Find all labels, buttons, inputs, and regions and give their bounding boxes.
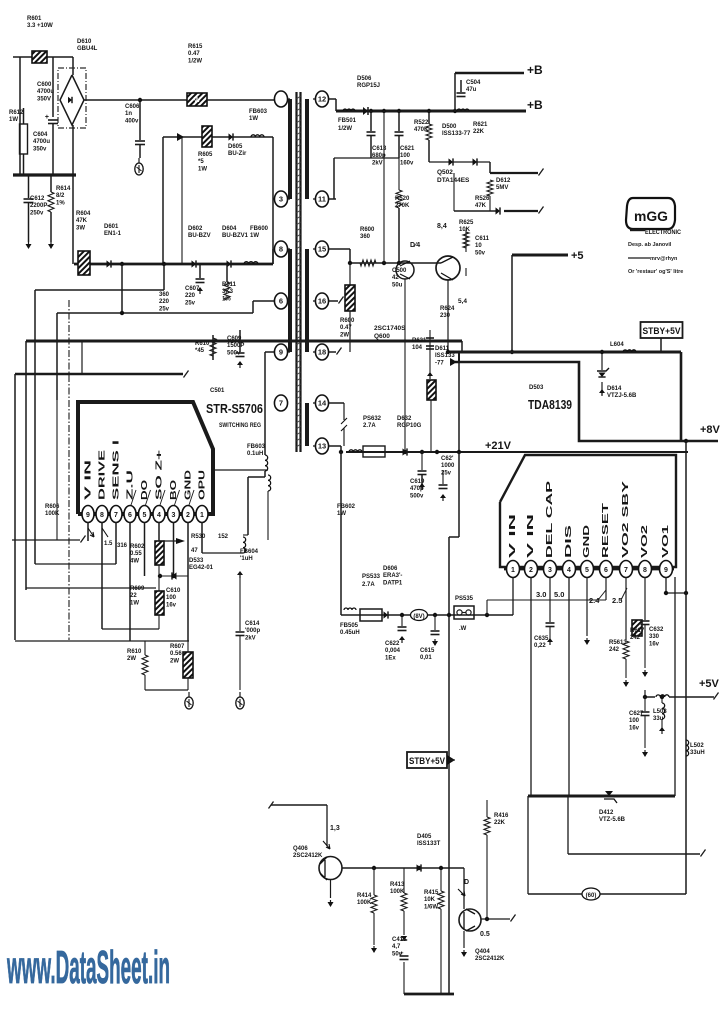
svg-text:16v: 16v — [629, 725, 640, 731]
svg-text:Or 'restaur' og'S' litre: Or 'restaur' og'S' litre — [628, 269, 683, 275]
svg-text:0.45uH: 0.45uH — [340, 630, 360, 636]
svg-text:R615: R615 — [188, 44, 203, 50]
svg-text:mGG: mGG — [634, 208, 668, 224]
svg-text:D412: D412 — [599, 810, 614, 816]
svg-text:11: 11 — [318, 195, 326, 204]
svg-text:2.5: 2.5 — [612, 596, 622, 605]
svg-text:0.5: 0.5 — [480, 931, 490, 938]
svg-text:L502: L502 — [690, 743, 704, 749]
svg-text:R607: R607 — [170, 644, 185, 650]
svg-text:18: 18 — [318, 348, 326, 357]
svg-text:2.7A: 2.7A — [362, 582, 375, 588]
svg-text:1%: 1% — [56, 200, 65, 206]
svg-text:L604: L604 — [610, 342, 624, 348]
svg-text:3: 3 — [548, 567, 552, 574]
svg-text:C632: C632 — [649, 627, 664, 633]
svg-text:+21V: +21V — [485, 440, 512, 452]
svg-text:C611: C611 — [475, 236, 490, 242]
svg-text:STR-S5706: STR-S5706 — [206, 401, 263, 416]
svg-text:SWITCHING REG: SWITCHING REG — [219, 422, 261, 429]
svg-text:D: D — [464, 879, 469, 886]
svg-text:C612: C612 — [30, 196, 45, 202]
svg-text:*45: *45 — [195, 348, 205, 354]
svg-text:R601: R601 — [27, 16, 42, 22]
svg-text:ISS133: ISS133 — [435, 353, 455, 359]
svg-text:*5: *5 — [198, 159, 204, 165]
svg-text:R526: R526 — [475, 196, 490, 202]
svg-text:8/2: 8/2 — [56, 193, 65, 199]
svg-text:360: 360 — [159, 292, 170, 298]
svg-text:VO2: VO2 — [640, 524, 649, 558]
svg-text:C504: C504 — [466, 80, 481, 86]
svg-text:0,22: 0,22 — [534, 643, 546, 649]
svg-text:6: 6 — [604, 567, 608, 574]
svg-text:1W: 1W — [249, 116, 258, 122]
svg-text:R415: R415 — [424, 890, 439, 896]
svg-text:GBU4L: GBU4L — [77, 46, 98, 52]
svg-text:1: 1 — [511, 567, 515, 574]
svg-text:2SC2412K: 2SC2412K — [475, 956, 505, 962]
svg-text:Q600: Q600 — [374, 333, 390, 340]
svg-text:4: 4 — [157, 512, 161, 519]
svg-text:C619: C619 — [410, 479, 425, 485]
svg-text:D500: D500 — [442, 124, 457, 130]
svg-text:220: 220 — [185, 293, 196, 299]
svg-text:EN1-1: EN1-1 — [104, 231, 122, 237]
svg-text:10K: 10K — [459, 227, 471, 233]
svg-text:4,7: 4,7 — [392, 944, 401, 950]
svg-text:7: 7 — [624, 567, 628, 574]
svg-text:FB603: FB603 — [247, 444, 266, 450]
svg-text:3.3 +10W: 3.3 +10W — [27, 23, 53, 29]
svg-text:316: 316 — [117, 543, 128, 549]
svg-text:22: 22 — [130, 593, 137, 599]
svg-text:25v: 25v — [185, 300, 196, 306]
svg-text:8: 8 — [100, 512, 104, 519]
svg-text:1W: 1W — [130, 600, 139, 606]
svg-text:6: 6 — [128, 512, 132, 519]
svg-text:FB603: FB603 — [249, 109, 268, 115]
svg-text:PS632: PS632 — [363, 416, 382, 422]
svg-text:22K: 22K — [494, 820, 506, 826]
svg-text:ISS133T: ISS133T — [417, 841, 441, 847]
svg-text:D610: D610 — [77, 39, 92, 45]
svg-text:4: 4 — [567, 567, 571, 574]
svg-text:R600: R600 — [340, 318, 355, 324]
svg-text:'000p: '000p — [245, 628, 260, 634]
svg-text:1W: 1W — [250, 233, 259, 239]
svg-text:R600: R600 — [360, 227, 375, 233]
svg-text:1/6W: 1/6W — [424, 904, 438, 910]
svg-text:VO1: VO1 — [661, 524, 670, 558]
svg-text:0.47: 0.47 — [188, 51, 200, 57]
svg-text:9: 9 — [86, 512, 90, 519]
svg-text:RGP10G: RGP10G — [397, 423, 422, 429]
svg-text:16v: 16v — [649, 641, 660, 647]
svg-text:104: 104 — [412, 345, 423, 351]
svg-text:ERA3'-: ERA3'- — [383, 573, 402, 579]
svg-text:C606: C606 — [125, 104, 140, 110]
svg-text:2SC2412K: 2SC2412K — [293, 853, 323, 859]
svg-text:D503: D503 — [529, 385, 544, 391]
svg-text:V IN: V IN — [508, 513, 517, 558]
svg-text:1: 1 — [200, 512, 204, 519]
svg-text:100: 100 — [400, 153, 411, 159]
svg-text:Q404: Q404 — [475, 949, 490, 955]
svg-text:50v: 50v — [475, 250, 486, 256]
svg-text:2SC1740S: 2SC1740S — [374, 325, 406, 332]
svg-text:160v: 160v — [400, 160, 414, 166]
svg-text:+5V: +5V — [699, 678, 720, 690]
svg-text:GND: GND — [184, 470, 193, 500]
svg-text:330: 330 — [649, 634, 660, 640]
svg-text:50u: 50u — [392, 282, 403, 288]
svg-text:8: 8 — [643, 567, 647, 574]
svg-text:4700u: 4700u — [33, 139, 50, 145]
svg-text:2200P: 2200P — [30, 203, 47, 209]
svg-text:-77: -77 — [435, 360, 444, 366]
svg-text:D506: D506 — [357, 76, 372, 82]
svg-text:D604: D604 — [222, 226, 237, 232]
svg-text:R414: R414 — [357, 893, 372, 899]
svg-text:RGP15J: RGP15J — [357, 83, 380, 89]
svg-text:350v: 350v — [33, 146, 47, 152]
svg-text:8: 8 — [279, 245, 283, 254]
svg-text:2.4: 2.4 — [589, 596, 600, 605]
svg-text:STBY+5V: STBY+5V — [643, 326, 682, 337]
svg-text:2kV: 2kV — [245, 635, 256, 641]
svg-text:4700u: 4700u — [37, 89, 54, 95]
svg-text:360: 360 — [360, 234, 371, 240]
svg-text:C62': C62' — [441, 456, 454, 462]
svg-text:1000: 1000 — [441, 463, 455, 469]
svg-text:STBY+5V: STBY+5V — [409, 756, 446, 767]
svg-text:TDA8139: TDA8139 — [528, 398, 572, 412]
svg-text:2kV: 2kV — [372, 160, 383, 166]
svg-text:1/2W: 1/2W — [338, 126, 352, 132]
svg-text:DIS: DIS — [564, 523, 573, 558]
svg-text:5MV: 5MV — [496, 185, 508, 191]
svg-text:2: 2 — [186, 512, 190, 519]
svg-text:2W: 2W — [340, 332, 349, 338]
svg-text:'1uH: '1uH — [240, 556, 253, 562]
svg-text:5.0: 5.0 — [554, 590, 564, 599]
svg-text:GND: GND — [582, 525, 591, 558]
svg-text:2: 2 — [529, 567, 533, 574]
svg-text:10: 10 — [475, 243, 482, 249]
svg-text:R624: R624 — [440, 306, 455, 312]
svg-text:R610: R610 — [127, 649, 142, 655]
svg-text:R522: R522 — [414, 120, 429, 126]
svg-text:33uH: 33uH — [690, 750, 705, 756]
svg-text:D602: D602 — [188, 226, 203, 232]
svg-text:100K: 100K — [45, 511, 60, 517]
svg-text:1.5: 1.5 — [104, 541, 113, 547]
svg-text:47u: 47u — [466, 87, 477, 93]
svg-text:D612: D612 — [496, 178, 511, 184]
svg-text:EG42-01: EG42-01 — [189, 565, 214, 571]
svg-text:152: 152 — [218, 534, 229, 540]
svg-text:47K: 47K — [475, 203, 487, 209]
svg-text:SENS I: SENS I — [112, 440, 121, 500]
svg-text:D605: D605 — [228, 144, 243, 150]
svg-text:Z.U: Z.U — [126, 469, 135, 500]
svg-text:400v: 400v — [125, 118, 139, 124]
svg-text:1500P: 1500P — [227, 343, 244, 349]
svg-text:R617: R617 — [630, 628, 645, 634]
svg-text:42: 42 — [392, 275, 399, 281]
svg-text:+: + — [45, 114, 49, 121]
svg-text:C635: C635 — [534, 636, 549, 642]
svg-text:R413: R413 — [390, 882, 405, 888]
svg-text:Q502: Q502 — [437, 169, 453, 176]
svg-text:R614: R614 — [56, 186, 71, 192]
svg-text:16v: 16v — [166, 602, 177, 608]
svg-text:R5613: R5613 — [609, 640, 627, 646]
svg-text:0.55: 0.55 — [130, 551, 142, 557]
svg-text:2W: 2W — [127, 656, 136, 662]
svg-text:242: 242 — [609, 647, 620, 653]
svg-text:25v: 25v — [159, 306, 170, 312]
svg-text:BO: BO — [169, 480, 178, 500]
svg-text:0.56: 0.56 — [170, 651, 182, 657]
svg-text:10K: 10K — [424, 897, 436, 903]
svg-text:100: 100 — [629, 718, 640, 724]
svg-text:C501: C501 — [210, 388, 225, 394]
svg-text:R604: R604 — [76, 211, 91, 217]
svg-text:D614: D614 — [607, 386, 622, 392]
svg-text:350V: 350V — [37, 96, 51, 102]
svg-text:9: 9 — [279, 348, 283, 357]
svg-text:+5: +5 — [571, 250, 584, 262]
svg-text:R606: R606 — [45, 504, 60, 510]
svg-text:8,4: 8,4 — [437, 223, 447, 230]
svg-text:C614: C614 — [245, 621, 260, 627]
svg-text:3: 3 — [279, 195, 283, 204]
svg-text:C413: C413 — [392, 937, 407, 943]
svg-text:5: 5 — [585, 567, 589, 574]
svg-text:PS533: PS533 — [362, 574, 381, 580]
svg-text:W: W — [194, 97, 201, 104]
svg-text:5,4: 5,4 — [458, 298, 467, 305]
svg-text:22K: 22K — [473, 129, 485, 135]
svg-text:D⁄4: D⁄4 — [410, 242, 420, 249]
svg-text:C600: C600 — [37, 82, 52, 88]
svg-text:C607: C607 — [185, 286, 200, 292]
svg-text:242: 242 — [630, 635, 641, 641]
svg-text:(60): (60) — [586, 893, 597, 899]
svg-text:230: 230 — [440, 313, 451, 319]
svg-text:6: 6 — [279, 297, 283, 306]
svg-text:PS535: PS535 — [455, 596, 474, 602]
svg-text:ISS133-77: ISS133-77 — [442, 131, 471, 137]
svg-text:15: 15 — [318, 245, 326, 254]
svg-text:14: 14 — [318, 399, 327, 408]
svg-text:16: 16 — [318, 297, 326, 306]
svg-text:DEL CAP: DEL CAP — [545, 480, 554, 558]
svg-text:C604: C604 — [33, 132, 48, 138]
svg-text:4W: 4W — [130, 558, 139, 564]
svg-text:+B: +B — [527, 98, 543, 112]
svg-text:7: 7 — [279, 399, 283, 408]
svg-text:VO2 SBY: VO2 SBY — [621, 480, 630, 558]
svg-text:DATP1: DATP1 — [383, 580, 403, 586]
svg-text:BU-BZV1: BU-BZV1 — [222, 233, 249, 239]
svg-text:1,3: 1,3 — [330, 825, 340, 832]
svg-text:R609: R609 — [130, 586, 145, 592]
svg-text:R530: R530 — [191, 534, 206, 540]
svg-text:R625: R625 — [459, 220, 474, 226]
svg-text:0,004: 0,004 — [385, 648, 401, 654]
svg-text:0.1uH: 0.1uH — [247, 451, 263, 457]
svg-text:V IN: V IN — [526, 513, 535, 558]
svg-text:7: 7 — [114, 512, 118, 519]
svg-text:13: 13 — [318, 442, 326, 451]
svg-text:(8V): (8V) — [413, 614, 424, 620]
svg-text:V IN: V IN — [84, 459, 93, 500]
svg-text:DRIVE: DRIVE — [98, 449, 107, 500]
svg-text:mrv@rhyn: mrv@rhyn — [650, 256, 678, 262]
svg-text:1Ex: 1Ex — [385, 655, 396, 661]
svg-text:D632: D632 — [397, 416, 412, 422]
svg-text:+B: +B — [527, 63, 543, 77]
svg-text:R602: R602 — [130, 544, 145, 550]
svg-text:C622: C622 — [385, 641, 400, 647]
svg-text:RESET: RESET — [601, 503, 610, 558]
svg-text:DO: DO — [140, 480, 149, 500]
svg-text:R605: R605 — [198, 152, 213, 158]
svg-text:1W: 1W — [198, 166, 207, 172]
svg-text:1/2W: 1/2W — [188, 58, 202, 64]
svg-text:47K: 47K — [76, 218, 88, 224]
svg-text:OPU: OPU — [198, 470, 207, 500]
svg-text:VTZ-5.6B: VTZ-5.6B — [599, 817, 626, 823]
svg-text:100: 100 — [166, 595, 177, 601]
svg-text:2.7A: 2.7A — [363, 423, 376, 429]
svg-text:220: 220 — [159, 299, 170, 305]
svg-text:2W: 2W — [170, 658, 179, 664]
svg-text:3: 3 — [172, 512, 176, 519]
svg-text:VTZJ-5.6B: VTZJ-5.6B — [607, 393, 637, 399]
svg-text:3W: 3W — [76, 225, 85, 231]
svg-text:www.DataSheet.in: www.DataSheet.in — [7, 941, 170, 993]
svg-text:1n: 1n — [125, 111, 132, 117]
svg-text:R621: R621 — [473, 122, 488, 128]
svg-text:C613: C613 — [372, 146, 387, 152]
svg-text:ELECTRONIC: ELECTRONIC — [645, 229, 681, 236]
svg-text:250v: 250v — [30, 210, 44, 216]
svg-text:50v: 50v — [392, 951, 403, 957]
svg-text:BU-Zir: BU-Zir — [228, 151, 247, 157]
svg-text:D405: D405 — [417, 834, 432, 840]
svg-text:R416: R416 — [494, 813, 509, 819]
svg-text:C610: C610 — [166, 588, 181, 594]
svg-text:BU-BZV: BU-BZV — [188, 233, 211, 239]
svg-text:FB602: FB602 — [337, 504, 356, 510]
svg-text:SO Z+: SO Z+ — [155, 449, 164, 500]
svg-text:9: 9 — [664, 567, 668, 574]
svg-text:100K: 100K — [357, 900, 372, 906]
svg-text:C627: C627 — [629, 711, 644, 717]
svg-text:100K: 100K — [390, 889, 405, 895]
svg-text:500v: 500v — [410, 493, 424, 499]
svg-text:R631: R631 — [412, 338, 427, 344]
svg-text:470p: 470p — [410, 486, 424, 492]
svg-text:FB604: FB604 — [240, 549, 259, 555]
svg-text:+8V: +8V — [700, 424, 720, 436]
svg-text:D533: D533 — [189, 558, 204, 564]
svg-text:C621: C621 — [400, 146, 415, 152]
svg-text:FB600: FB600 — [250, 226, 269, 232]
svg-text:D606: D606 — [383, 566, 398, 572]
svg-text:12: 12 — [318, 95, 326, 104]
svg-text:R612: R612 — [9, 110, 24, 116]
svg-text:Desp. ab Janovil: Desp. ab Janovil — [628, 242, 672, 248]
svg-text:FB501: FB501 — [338, 118, 357, 124]
svg-text:5: 5 — [143, 512, 147, 519]
svg-text:47: 47 — [191, 548, 198, 554]
svg-text:FB505: FB505 — [340, 623, 359, 629]
svg-text:.W: .W — [459, 626, 467, 632]
svg-text:L503: L503 — [653, 709, 667, 715]
svg-text:0,01: 0,01 — [420, 655, 432, 661]
svg-text:1W: 1W — [9, 117, 18, 123]
svg-text:C615: C615 — [420, 648, 435, 654]
svg-text:3.0: 3.0 — [536, 590, 546, 599]
svg-text:C500: C500 — [392, 268, 407, 274]
svg-text:Q406: Q406 — [293, 846, 308, 852]
svg-text:D601: D601 — [104, 224, 119, 230]
